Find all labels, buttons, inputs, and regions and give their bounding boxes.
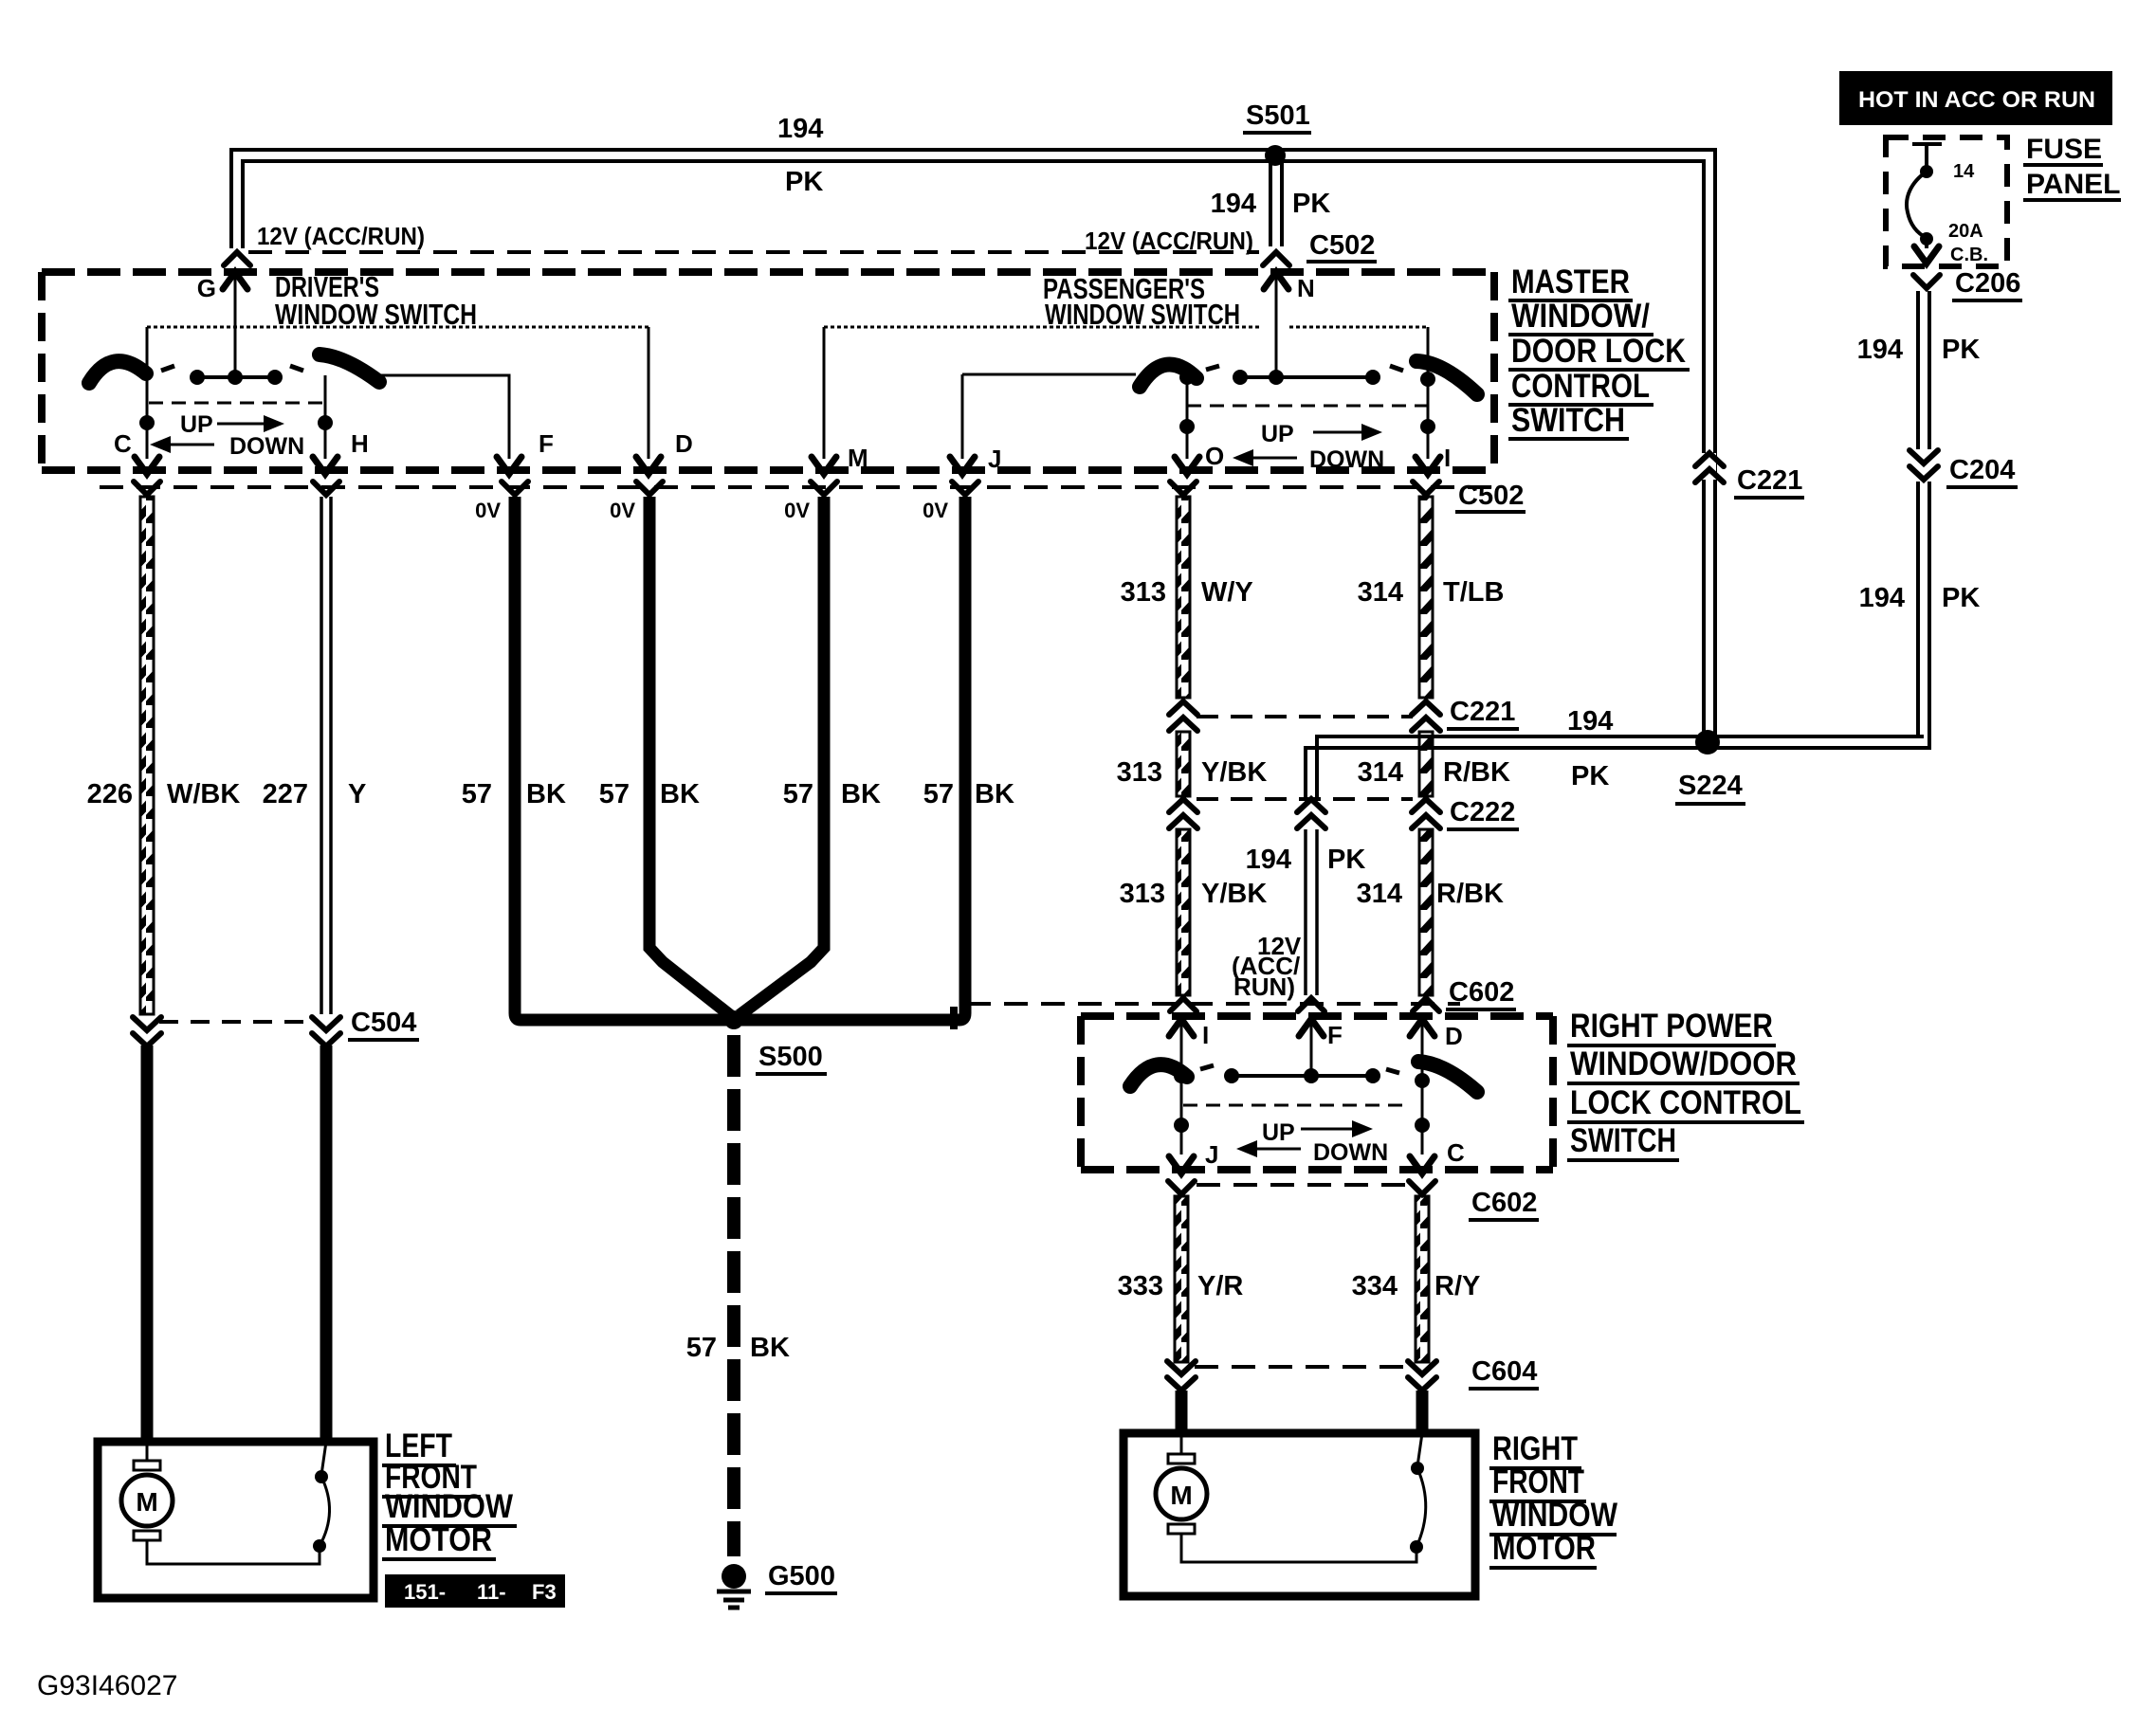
- svg-text:F: F: [1327, 1021, 1343, 1049]
- svg-text:N: N: [1297, 274, 1315, 302]
- wire BK C504 to left motor (left): [141, 1045, 154, 1442]
- svg-text:SWITCH: SWITCH: [1570, 1122, 1676, 1159]
- svg-text:BK: BK: [660, 779, 700, 809]
- svg-text:0V: 0V: [923, 499, 948, 522]
- connector C204: [1909, 450, 2018, 487]
- svg-text:J: J: [988, 445, 1001, 473]
- passenger switch rocker left: [1140, 364, 1197, 387]
- label left front window motor: [382, 1427, 517, 1559]
- driver switch rocker left: [89, 361, 146, 383]
- svg-text:57: 57: [599, 779, 630, 809]
- svg-text:BK: BK: [841, 779, 881, 809]
- svg-text:194: 194: [1246, 845, 1291, 875]
- svg-text:DOWN: DOWN: [229, 433, 304, 460]
- pin J: [950, 445, 1001, 474]
- svg-text:DOOR LOCK: DOOR LOCK: [1511, 333, 1686, 370]
- hot in acc or run banner: [1839, 71, 2112, 125]
- passenger switch UP arrow: [1261, 421, 1382, 447]
- svg-text:12V (ACC/RUN): 12V (ACC/RUN): [257, 222, 425, 250]
- passenger switch top dotted wire: [824, 326, 1428, 329]
- svg-text:PK: PK: [1942, 335, 1980, 365]
- wire 194 PK C204 down to S224 corner: [1859, 482, 1981, 748]
- svg-text:I: I: [1202, 1021, 1209, 1049]
- connector C206: [1913, 268, 2022, 300]
- connector C602 bottom: [1168, 1181, 1539, 1220]
- svg-text:194: 194: [1567, 706, 1613, 736]
- connector C502 bottom label: [1455, 481, 1526, 512]
- label right power window/door lock control switch: [1567, 1008, 1804, 1160]
- label right front window motor: [1489, 1430, 1617, 1568]
- pin O: [1175, 442, 1224, 474]
- svg-text:FUSE: FUSE: [2026, 134, 2102, 165]
- right switch pin J arrow: [1169, 1140, 1218, 1173]
- wire 313 Y/BK upper (hatched): [1117, 732, 1268, 796]
- connector C221 on riser: [1695, 453, 1804, 498]
- svg-text:MOTOR: MOTOR: [1492, 1530, 1596, 1567]
- driver switch F leg wire: [379, 375, 509, 453]
- svg-text:314: 314: [1357, 879, 1402, 909]
- pin C: [114, 429, 159, 474]
- svg-text:DOWN: DOWN: [1309, 446, 1384, 473]
- wire BK C604 to right motor (right): [1416, 1391, 1429, 1433]
- splice S224: [1675, 730, 1745, 804]
- svg-text:C604: C604: [1471, 1356, 1537, 1387]
- svg-text:MASTER: MASTER: [1511, 264, 1630, 300]
- passenger switch rocker right: [1416, 361, 1477, 394]
- svg-text:R/Y: R/Y: [1434, 1271, 1480, 1301]
- svg-text:C502: C502: [1458, 481, 1524, 511]
- svg-text:Y/R: Y/R: [1197, 1271, 1243, 1301]
- pin D: [636, 429, 693, 474]
- svg-text:WINDOW: WINDOW: [385, 1488, 513, 1525]
- svg-text:G: G: [197, 274, 216, 302]
- svg-text:HOT IN ACC OR RUN: HOT IN ACC OR RUN: [1858, 87, 2095, 113]
- fuse panel box: [1886, 134, 2121, 266]
- svg-text:151-: 151-: [404, 1580, 446, 1604]
- svg-text:RIGHT: RIGHT: [1492, 1430, 1578, 1467]
- wire 57 BK from pin D: [599, 497, 730, 1015]
- svg-text:RUN): RUN): [1233, 973, 1295, 1001]
- svg-text:T/LB: T/LB: [1443, 577, 1504, 608]
- svg-text:BK: BK: [526, 779, 566, 809]
- svg-text:WINDOW/DOOR: WINDOW/DOOR: [1570, 1045, 1797, 1082]
- wire 57 BK from pin F: [462, 497, 728, 1020]
- svg-text:CONTROL: CONTROL: [1511, 368, 1650, 405]
- wire 314 R/BK lower (hatched): [1357, 829, 1504, 995]
- right switch junction dots: [1174, 1068, 1430, 1133]
- driver switch D leg wire: [648, 327, 650, 453]
- svg-text:J: J: [1205, 1140, 1218, 1169]
- right front window motor box: [1124, 1433, 1475, 1596]
- svg-text:PK: PK: [785, 167, 823, 197]
- wire 226 W/BK (hatched): [87, 497, 241, 1014]
- 0V labels: [475, 499, 948, 522]
- svg-text:11-: 11-: [477, 1580, 506, 1604]
- svg-text:M: M: [1170, 1481, 1192, 1510]
- svg-text:313: 313: [1120, 879, 1165, 909]
- passenger switch up/down dashed line: [1187, 405, 1428, 408]
- svg-text:S501: S501: [1246, 100, 1310, 131]
- svg-text:G93I46027: G93I46027: [37, 1670, 177, 1701]
- svg-text:194: 194: [777, 114, 823, 144]
- svg-text:Y/BK: Y/BK: [1201, 757, 1267, 788]
- svg-text:RIGHT POWER: RIGHT POWER: [1570, 1008, 1773, 1045]
- svg-text:FRONT: FRONT: [1492, 1464, 1584, 1500]
- connector C504: [133, 1008, 419, 1046]
- svg-text:314: 314: [1358, 577, 1403, 608]
- svg-text:S224: S224: [1678, 771, 1743, 801]
- svg-text:D: D: [1445, 1022, 1463, 1050]
- svg-text:S500: S500: [758, 1042, 823, 1072]
- pin I: [1416, 444, 1451, 474]
- right switch contact bar: [1200, 1065, 1399, 1083]
- connector line C502 bottom (dashed): [100, 485, 1496, 489]
- passenger switch J leg wire: [962, 374, 1136, 453]
- right switch pin F arrow: [1299, 1019, 1343, 1076]
- svg-text:BK: BK: [750, 1333, 790, 1363]
- svg-text:C222: C222: [1450, 797, 1515, 827]
- svg-text:20A: 20A: [1948, 221, 1983, 242]
- svg-text:0V: 0V: [475, 499, 501, 522]
- wire 313 W/Y (hatched): [1121, 497, 1253, 698]
- svg-text:SWITCH: SWITCH: [1511, 402, 1625, 439]
- svg-text:C504: C504: [351, 1008, 416, 1038]
- svg-text:F3: F3: [532, 1580, 557, 1604]
- label 12V ACC/RUN lower: [1232, 932, 1302, 1001]
- passenger switch DOWN arrow: [1233, 446, 1384, 473]
- svg-text:PK: PK: [1942, 583, 1980, 613]
- wire 194 PK fuse to C204: [1857, 291, 1981, 449]
- svg-text:C: C: [114, 429, 132, 458]
- svg-text:M: M: [848, 444, 868, 472]
- svg-text:F: F: [539, 429, 554, 458]
- right switch up/down dashed line: [1183, 1104, 1409, 1107]
- connector C604: [1167, 1356, 1539, 1391]
- svg-text:G500: G500: [768, 1561, 835, 1591]
- svg-text:14: 14: [1953, 161, 1975, 182]
- driver switch junction dots: [139, 415, 333, 430]
- svg-text:57: 57: [462, 779, 492, 809]
- wire 313 Y/BK lower (hatched): [1120, 829, 1268, 995]
- svg-text:194: 194: [1211, 189, 1256, 219]
- right switch pin C arrow: [1410, 1138, 1465, 1173]
- pin M: [812, 444, 868, 474]
- svg-text:I: I: [1444, 444, 1451, 472]
- svg-text:C: C: [1447, 1138, 1465, 1167]
- svg-text:UP: UP: [1261, 421, 1294, 447]
- svg-text:LOCK CONTROL: LOCK CONTROL: [1570, 1084, 1801, 1121]
- pin G arrow: [197, 272, 247, 377]
- svg-text:PK: PK: [1292, 189, 1330, 219]
- svg-text:0V: 0V: [784, 499, 810, 522]
- svg-text:57: 57: [923, 779, 954, 809]
- wire 227 Y (double line): [263, 497, 367, 1014]
- svg-text:M: M: [136, 1487, 157, 1517]
- left motor switch arc: [313, 1442, 330, 1553]
- driver switch C leg wire: [146, 327, 149, 453]
- figure tag 151-11-F3: [385, 1574, 565, 1608]
- right switch pin D arrow: [1410, 1019, 1463, 1154]
- svg-text:W/BK: W/BK: [167, 779, 240, 809]
- svg-text:PK: PK: [1327, 845, 1365, 875]
- svg-text:226: 226: [87, 779, 133, 809]
- wire 194 PK S501 drop to C502: [1211, 161, 1331, 246]
- label driver's window switch: [275, 270, 477, 331]
- passenger switch contact bar: [1206, 366, 1403, 385]
- svg-text:227: 227: [263, 779, 308, 809]
- svg-text:WINDOW/: WINDOW/: [1511, 298, 1650, 335]
- passenger switch M leg wire: [823, 327, 826, 453]
- wire 194 PK top loop (left bend to right riser): [231, 114, 1715, 736]
- svg-text:W/Y: W/Y: [1201, 577, 1253, 608]
- svg-text:UP: UP: [180, 411, 213, 438]
- svg-text:314: 314: [1358, 757, 1403, 788]
- C502 socket cups: [134, 482, 1439, 495]
- svg-text:MOTOR: MOTOR: [385, 1521, 492, 1558]
- right switch UP arrow: [1262, 1119, 1373, 1146]
- splice S500: [724, 1010, 827, 1074]
- svg-text:PK: PK: [1571, 761, 1609, 791]
- svg-text:Y/BK: Y/BK: [1201, 879, 1267, 909]
- ground G500: [717, 1561, 837, 1608]
- passenger switch O leg wire: [1186, 377, 1189, 453]
- motor M left: [121, 1442, 320, 1564]
- wire 57 BK S500 to ground (dashed): [686, 1035, 790, 1556]
- driver switch H leg wire: [324, 375, 327, 453]
- connector C221: [1169, 697, 1519, 731]
- wire 314 T/LB (hatched): [1358, 497, 1505, 698]
- fuse 14 20A C.B.: [1907, 144, 1988, 265]
- wire 57 BK from pin M: [740, 497, 881, 1015]
- svg-text:57: 57: [783, 779, 813, 809]
- node G cup: [224, 252, 250, 265]
- svg-text:194: 194: [1857, 335, 1903, 365]
- svg-text:R/BK: R/BK: [1436, 879, 1504, 909]
- svg-text:313: 313: [1121, 577, 1166, 608]
- label master window/door lock control switch: [1508, 264, 1690, 439]
- wire BK C504 to left motor (right): [320, 1045, 333, 1442]
- wire 333 Y/R (hatched): [1118, 1196, 1244, 1362]
- svg-text:UP: UP: [1262, 1119, 1295, 1146]
- connector line C502 top (dashed): [248, 250, 1259, 254]
- svg-text:DOWN: DOWN: [1313, 1139, 1388, 1166]
- right motor switch arc: [1410, 1433, 1426, 1554]
- svg-text:Y: Y: [348, 779, 366, 809]
- splice S501: [1243, 100, 1311, 166]
- svg-text:0V: 0V: [610, 499, 635, 522]
- pin H: [313, 429, 369, 474]
- svg-text:194: 194: [1859, 583, 1905, 613]
- wire 194 PK middle (double line): [1246, 829, 1366, 995]
- svg-text:D: D: [675, 429, 693, 458]
- driver switch DOWN arrow: [150, 433, 304, 460]
- wire 194 PK S224 horizontal run: [1306, 706, 1929, 799]
- pin F: [497, 429, 554, 474]
- driver switch UP arrow: [180, 411, 284, 438]
- right switch DOWN arrow: [1236, 1139, 1388, 1166]
- connector C222: [1169, 797, 1519, 829]
- svg-text:C206: C206: [1955, 268, 2020, 299]
- wire 57 BK from pin J: [740, 497, 1014, 1020]
- master window/door lock control switch box: [42, 272, 1494, 470]
- left front window motor box: [98, 1442, 374, 1598]
- svg-text:313: 313: [1117, 757, 1162, 788]
- svg-text:BK: BK: [975, 779, 1014, 809]
- svg-text:H: H: [351, 429, 369, 458]
- wire 314 R/BK upper (hatched): [1358, 732, 1510, 796]
- svg-text:C221: C221: [1450, 697, 1515, 727]
- connector C502 top label: [1306, 230, 1377, 262]
- svg-text:C.B.: C.B.: [1950, 245, 1988, 265]
- driver switch up/down dashed line: [149, 402, 325, 405]
- passenger switch I leg wire: [1427, 327, 1430, 453]
- driver switch rocker right: [320, 355, 379, 382]
- right switch pin I arrow: [1169, 1019, 1209, 1154]
- svg-text:C204: C204: [1949, 455, 2015, 485]
- driver switch contact bar: [161, 366, 303, 385]
- pin N arrow: [1264, 272, 1315, 377]
- wire 334 R/Y (hatched): [1352, 1196, 1481, 1362]
- driver switch top dotted wire: [147, 326, 649, 329]
- label passenger's window switch: [1043, 272, 1240, 331]
- svg-text:C602: C602: [1471, 1188, 1537, 1218]
- right switch rocker right: [1418, 1062, 1477, 1092]
- svg-text:C602: C602: [1449, 977, 1514, 1008]
- svg-text:C221: C221: [1737, 465, 1802, 496]
- connector C602 top: [954, 977, 1516, 1029]
- svg-text:O: O: [1205, 442, 1224, 470]
- svg-text:333: 333: [1118, 1271, 1163, 1301]
- right power window/door lock control switch box: [1081, 1016, 1553, 1170]
- svg-text:334: 334: [1352, 1271, 1398, 1301]
- passenger switch junction dots: [1179, 370, 1435, 434]
- node N cup: [1263, 252, 1289, 265]
- svg-text:PANEL: PANEL: [2026, 169, 2120, 200]
- svg-text:C502: C502: [1309, 230, 1375, 261]
- right switch rocker left: [1130, 1064, 1187, 1086]
- svg-text:WINDOW: WINDOW: [1492, 1497, 1617, 1534]
- wire BK C604 to right motor (left): [1176, 1391, 1188, 1433]
- svg-text:R/BK: R/BK: [1443, 757, 1510, 788]
- motor M right: [1156, 1433, 1416, 1562]
- svg-text:57: 57: [686, 1333, 717, 1363]
